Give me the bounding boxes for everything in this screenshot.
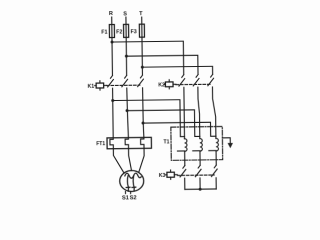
svg-text:S1: S1 [122,195,129,201]
K1 contact pole 2 [122,75,128,86]
fuse F3 [139,24,144,37]
K2 contact pole 3 [208,74,214,85]
wire winding 2 to K3 pole 2 [199,151,201,165]
wire tap line 3 [143,122,216,137]
FT1 heater element 3 [141,137,144,148]
svg-text:R: R [109,11,113,17]
label S1 [122,195,129,201]
T1 winding 2 [193,139,203,152]
wire winding 3 to K3 pole 3 [215,151,217,165]
label T1 [164,140,170,146]
K1 linkage dashed line [107,84,140,86]
wire K2 pole 2 output to winding 2 [198,87,200,138]
wire FT1 to motor left [113,149,124,174]
wire K1 pole 2 output [127,88,129,138]
wire K3 pole 3 output [215,178,217,189]
wire phase S vertical [125,17,128,75]
junction dot node W (T to tap) [141,122,144,125]
fuse F2 [124,24,129,37]
label F1 [101,29,107,35]
node S label [123,11,127,17]
label S2 [130,195,137,201]
K1 contact pole 1 [108,76,114,87]
wire phase R vertical [111,17,114,75]
svg-text:F3: F3 [130,29,136,35]
label K3 [159,173,166,179]
svg-text:K1: K1 [88,84,95,90]
K2 linkage dashed line [176,83,211,85]
overload relay FT1 box [107,137,151,148]
K1 contact pole 3 [138,75,144,86]
label FT1 [96,141,105,147]
wire K2 pole 1 output to winding 1 [183,87,186,138]
wire branch T to K2 pole 3 [142,66,212,75]
motor M circle [120,170,144,191]
K3 linkage dashed line [177,174,214,176]
motor terminal stub S2 [130,191,132,193]
junction dot node U (R to tap) [111,99,114,102]
svg-text:S2: S2 [130,195,137,201]
label F3 [130,29,136,35]
wire winding 1 to K3 pole 1 [184,151,186,165]
junction dot S branch [125,55,128,58]
FT1 heater element 1 [110,138,113,149]
junction dot R branch [111,41,114,44]
ground/chassis connection wire [222,138,230,143]
wire K1 pole 1 output [112,88,115,138]
wire K2 pole 3 output to winding 3 [212,87,215,138]
T1 winding 1 [177,139,187,152]
autotransformer T1 enclosure [171,126,223,160]
svg-text:T1: T1 [164,140,170,146]
wire FT1 to motor right [139,148,145,172]
junction dot T branch [141,66,144,69]
contactor K2 coil [164,80,176,89]
wire branch S to K2 pole 2 [126,55,198,75]
K3 contact pole 3 [211,165,217,176]
K3 contact pole 2 [195,165,201,176]
svg-text:T: T [139,11,143,17]
junction dot node V (S to tap) [126,109,129,112]
svg-text:FT1: FT1 [96,141,105,147]
node R label [109,11,113,17]
svg-text:S: S [123,11,127,17]
T1 winding 3 [209,138,219,151]
contactor K1 coil [95,81,107,90]
svg-text:K3: K3 [159,173,166,179]
wire K1 pole 3 output [143,88,144,138]
node T label [139,11,143,17]
svg-text:F2: F2 [116,29,122,35]
wire tap line 1 [113,100,185,138]
motor terminal stub S1 [124,191,126,193]
label K1 [88,84,95,90]
FT1 heater element 2 [125,138,128,149]
wire FT1 to motor middle [129,149,132,171]
junction dot star point [199,188,202,191]
svg-text:K2: K2 [158,83,165,89]
wire K3 pole 2 output [199,178,201,189]
contactor K3 coil [165,170,177,179]
K2 contact pole 2 [193,75,199,86]
motor label M 3~ [125,173,142,191]
ground arrow [228,143,233,148]
fuse F1 [109,25,114,38]
K2 contact pole 1 [179,75,185,86]
wire star-point bus [185,188,216,190]
wire K3 pole 1 output [184,178,186,189]
wire branch R to K2 pole 1 [112,41,184,75]
label K2 [158,83,165,89]
label F2 [116,29,122,35]
K3 contact pole 1 [180,166,186,177]
wire tap line 2 [127,110,200,137]
svg-text:F1: F1 [101,29,107,35]
wire phase T vertical [141,17,144,75]
